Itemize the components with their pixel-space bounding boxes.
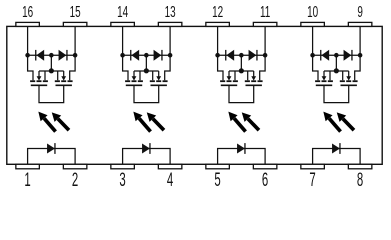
pin 7 tab	[301, 164, 325, 169]
wire gate interconnect channel 1	[39, 85, 64, 102]
pin 8 tab	[348, 164, 372, 169]
pin 6 tab	[253, 164, 277, 169]
wire pin 11 to drain node	[264, 26, 266, 55]
svg-text:3: 3	[119, 170, 126, 191]
wire common source rail channel 3	[229, 70, 254, 72]
wire diode midpoint to source junction channel 4	[335, 55, 337, 71]
svg-text:8: 8	[357, 170, 364, 191]
wire pin 14 to drain node	[122, 26, 124, 55]
pin 11 tab	[253, 22, 277, 26]
pin 5 tab	[206, 164, 230, 169]
svg-text:9: 9	[357, 3, 363, 21]
wire gate interconnect channel 3	[229, 85, 254, 102]
svg-text:5: 5	[214, 170, 221, 191]
wire pin 10 to drain node	[312, 26, 314, 55]
wire drain rail channel 4	[313, 54, 361, 56]
svg-text:11: 11	[260, 3, 270, 21]
body diode D4b (cathode right)	[344, 50, 352, 61]
node body-diode midpoint channel 1	[49, 53, 54, 58]
wire diode midpoint to source junction channel 2	[145, 55, 147, 71]
LED LED1 (anode pin 1)	[47, 143, 55, 154]
wire pin 15 to drain node	[74, 26, 76, 55]
node body-diode midpoint channel 2	[144, 53, 149, 58]
MOSFET Q2b	[150, 55, 170, 85]
body diode D3b (cathode right)	[249, 50, 257, 61]
body diode D1b (cathode right)	[59, 50, 67, 61]
light emission arrow 1 channel 4	[323, 112, 340, 132]
svg-text:7: 7	[309, 170, 315, 191]
MOSFET Q1a	[28, 55, 48, 85]
wire drain rail channel 1	[28, 54, 76, 56]
wire common source rail channel 4	[324, 70, 349, 72]
wire gate interconnect channel 4	[324, 85, 349, 102]
node body-diode midpoint channel 3	[239, 53, 244, 58]
svg-text:1: 1	[24, 170, 30, 191]
wire common source rail channel 2	[134, 70, 159, 72]
node drain right channel 1	[73, 53, 78, 58]
light emission arrow 2 channel 2	[147, 112, 164, 130]
LED LED3 (anode pin 5)	[237, 143, 245, 154]
pin 14 tab	[111, 22, 135, 26]
light emission arrow 2 channel 4	[337, 112, 354, 130]
node drain right channel 4	[358, 53, 363, 58]
wire LED loop pins 7-8	[313, 149, 361, 165]
node drain left channel 2	[120, 53, 125, 58]
pin 12 tab	[206, 22, 230, 26]
MOSFET Q3a	[218, 55, 238, 85]
light emission arrow 1 channel 2	[133, 112, 150, 132]
svg-text:14: 14	[117, 3, 128, 21]
svg-text:16: 16	[22, 3, 33, 21]
pin 13 tab	[158, 22, 182, 26]
wire LED loop pins 5-6	[218, 149, 266, 165]
wire LED loop pins 3-4	[123, 149, 171, 165]
MOSFET Q2a	[123, 55, 143, 85]
svg-text:4: 4	[167, 170, 174, 191]
node common source channel 4	[334, 68, 339, 73]
light emission arrow 2 channel 1	[52, 112, 69, 130]
node drain right channel 3	[263, 53, 268, 58]
light emission arrow 2 channel 3	[242, 112, 259, 130]
MOSFET Q4b	[340, 55, 360, 85]
node drain left channel 1	[25, 53, 30, 58]
MOSFET Q4a	[313, 55, 333, 85]
body diode D1a (cathode left)	[36, 50, 44, 61]
MOSFET Q1b	[55, 55, 75, 85]
pin 9 tab	[348, 22, 372, 26]
node drain left channel 4	[310, 53, 315, 58]
package outline	[7, 26, 382, 164]
wire drain rail channel 3	[218, 54, 266, 56]
LED LED4 (anode pin 7)	[332, 143, 340, 154]
MOSFET Q3b	[245, 55, 265, 85]
body diode D3a (cathode left)	[226, 50, 234, 61]
pin 3 tab	[111, 164, 135, 169]
wire diode midpoint to source junction channel 1	[50, 55, 52, 71]
light emission arrow 1 channel 1	[38, 112, 55, 132]
svg-text:12: 12	[212, 3, 223, 21]
svg-text:10: 10	[307, 3, 318, 21]
LED LED2 (anode pin 3)	[142, 143, 150, 154]
svg-text:15: 15	[70, 3, 81, 21]
wire common source rail channel 1	[39, 70, 64, 72]
node common source channel 2	[144, 68, 149, 73]
body diode D2a (cathode left)	[131, 50, 139, 61]
node common source channel 3	[239, 68, 244, 73]
wire pin 13 to drain node	[169, 26, 171, 55]
pin 16 tab	[16, 22, 39, 26]
wire drain rail channel 2	[123, 54, 171, 56]
body diode D2b (cathode right)	[154, 50, 162, 61]
wire diode midpoint to source junction channel 3	[240, 55, 242, 71]
wire pin 16 to drain node	[27, 26, 29, 55]
body diode D4a (cathode left)	[321, 50, 329, 61]
pin 4 tab	[158, 164, 182, 169]
node drain left channel 3	[215, 53, 220, 58]
wire gate interconnect channel 2	[134, 85, 159, 102]
pin 10 tab	[301, 22, 325, 26]
pin 15 tab	[63, 22, 87, 26]
node body-diode midpoint channel 4	[334, 53, 339, 58]
node drain right channel 2	[168, 53, 173, 58]
svg-text:6: 6	[262, 170, 269, 191]
svg-text:13: 13	[165, 3, 176, 21]
wire pin 9 to drain node	[359, 26, 361, 55]
pin 2 tab	[63, 164, 87, 169]
svg-text:2: 2	[72, 170, 78, 191]
pin 1 tab	[16, 164, 39, 169]
wire pin 12 to drain node	[217, 26, 219, 55]
light emission arrow 1 channel 3	[228, 112, 245, 132]
wire LED loop pins 1-2	[28, 149, 76, 165]
node common source channel 1	[49, 68, 54, 73]
